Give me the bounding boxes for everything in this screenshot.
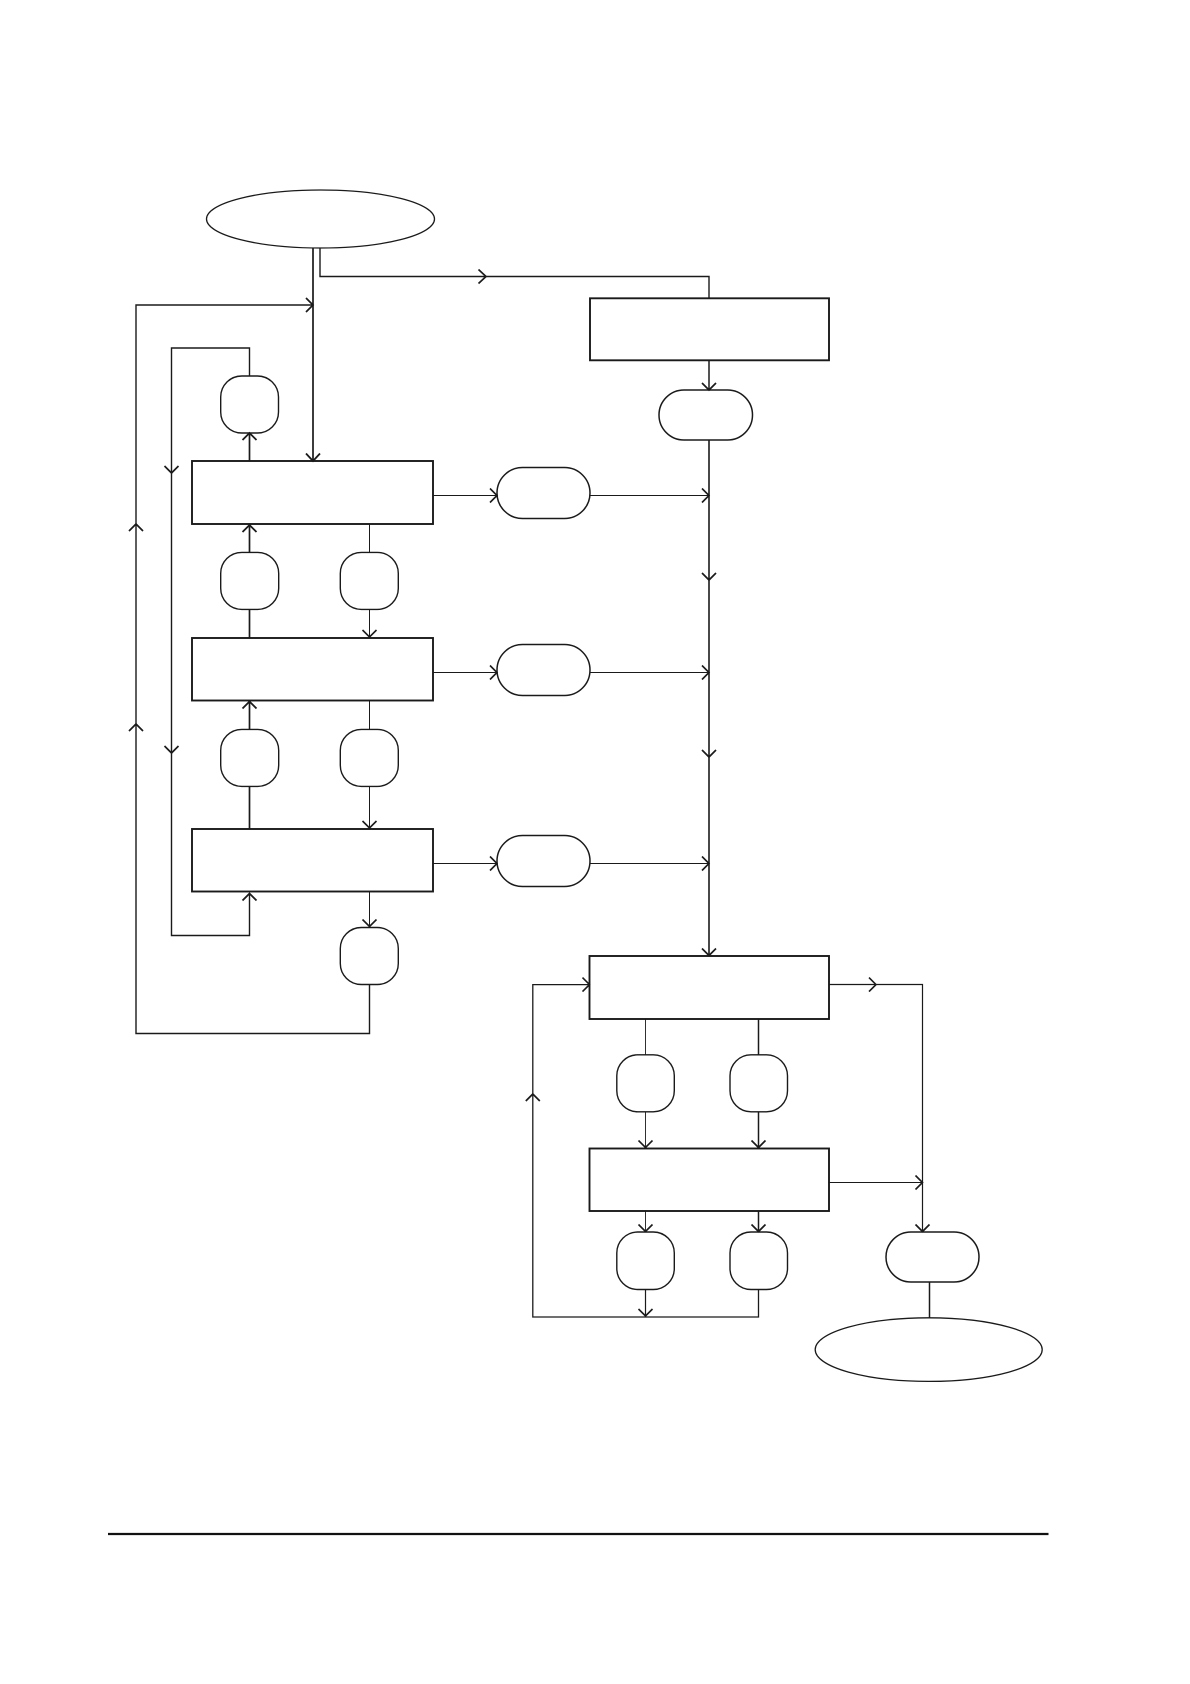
- arrowhead right merging into spine at y=670: [702, 666, 709, 680]
- arrowhead right into capsule C1: [490, 489, 497, 503]
- arrowhead up into box B2 bottom: [243, 702, 257, 709]
- arrowhead down into box B3 top: [363, 821, 377, 828]
- wire: box B5 bottom down to squircle S6R: [758, 1211, 760, 1231]
- arrowhead down merging into return rail: [639, 1309, 653, 1316]
- arrowhead up into box B3 bottom: [243, 894, 257, 901]
- process box B5: [590, 1149, 830, 1212]
- connector squircle S2R: [340, 552, 398, 609]
- wire: box B2 bottom down to squircle S3R top: [369, 701, 371, 730]
- connector squircle S4 (below box B3): [340, 928, 398, 985]
- chevron down on inner loop at y=753: [165, 746, 179, 753]
- wire: box B5 bottom down to squircle S6L: [645, 1211, 647, 1231]
- connector squircle S3L: [221, 729, 279, 786]
- arrowhead up into box B1 bottom: [243, 525, 257, 532]
- process box B0 (top right): [590, 298, 829, 360]
- connector squircle S3R: [340, 729, 398, 786]
- wire: box B1 top up to squircle S1: [249, 434, 251, 461]
- process box B2: [192, 638, 433, 701]
- chevron down on inner loop at y=473: [165, 466, 179, 473]
- chevron up on outer loop at y=524: [129, 524, 143, 531]
- chevron down on spine at y=757: [702, 750, 716, 757]
- arrowhead down into capsule C0: [702, 383, 716, 390]
- capsule C0: [659, 390, 753, 440]
- arrowhead right merging into spine at y=493: [702, 489, 709, 503]
- arrowhead right into capsule C3: [490, 857, 497, 871]
- chevron up on return rail at y=1094: [526, 1094, 540, 1101]
- wire spine: capsule C0 down to box B4 top: [708, 440, 710, 955]
- connector squircle S6L: [617, 1232, 675, 1290]
- wire: box B3 bottom down to squircle S4 top: [369, 892, 371, 927]
- chevron up on outer loop at y=724: [129, 724, 143, 731]
- wire: box B4 right, down to capsule C4: [829, 985, 923, 1231]
- connector squircle S2L: [221, 552, 279, 609]
- wire: squircle S2L bottom down to box B2 top: [249, 609, 251, 638]
- wire return rail: squircle S6R bottom, down, left, up, right into box B4 left: [533, 985, 759, 1317]
- capsule C3: [497, 836, 590, 887]
- wire: squircle S3L top up to box B2 bottom: [249, 702, 251, 729]
- chevron down on spine at y=580: [702, 573, 716, 580]
- terminator ellipse E2 (end): [815, 1318, 1042, 1382]
- process box B3: [192, 829, 433, 892]
- wire: box B0 bottom to capsule C0: [708, 360, 710, 389]
- wire: capsule C1 right to spine: [590, 495, 708, 497]
- connector squircle S6R: [730, 1232, 788, 1290]
- wire: capsule C4 bottom down to end ellipse E2: [929, 1282, 931, 1318]
- footer rule: [108, 1533, 1049, 1535]
- arrowhead down into box B4 top: [702, 949, 716, 956]
- capsule C4: [886, 1232, 979, 1282]
- arrowhead down into box B2 top: [363, 630, 377, 637]
- connector squircle S5R: [730, 1055, 788, 1112]
- arrowhead down into squircle S6L top: [639, 1225, 653, 1232]
- wire: squircle S3L bottom down to box B3 top: [249, 786, 251, 829]
- wire: box B5 right merging into capsule C4 wire: [829, 1182, 922, 1184]
- arrowhead down into box B1 top: [306, 454, 320, 462]
- arrowhead down into capsule C4 top: [916, 1225, 930, 1232]
- arrowhead right merging into spine at y=861: [702, 857, 709, 871]
- capsule C2: [497, 645, 590, 696]
- arrowhead up into squircle S1 bottom: [243, 433, 257, 440]
- wire: squircle S5R bottom down to box B5 top: [758, 1112, 760, 1147]
- process box B4: [590, 956, 830, 1019]
- arrowhead chevron right on wire B: [479, 270, 487, 284]
- arrowhead chevron right on box B4 output wire: [869, 978, 876, 992]
- arrowhead down into squircle S6R top: [752, 1225, 766, 1232]
- wire: squircle S2R bottom down to box B2 top: [369, 609, 371, 637]
- wire A: start ellipse down to box B1 top: [312, 248, 314, 461]
- wire B: start ellipse branch right to box B0 top: [320, 248, 709, 298]
- wire: box B1 bottom down to squircle S2R top: [369, 524, 371, 552]
- arrowhead right merging into wire A at y=305: [306, 298, 313, 312]
- wire: box B4 bottom down to squircle S5R: [758, 1019, 760, 1055]
- wire: box B4 bottom down to squircle S5L: [645, 1019, 647, 1055]
- arrowhead right merging at x=922.5: [916, 1176, 923, 1190]
- wire: squircle S5L bottom down to box B5 top: [645, 1112, 647, 1147]
- terminator ellipse E1 (start): [207, 190, 435, 248]
- wire: capsule C3 right to spine: [590, 863, 708, 865]
- arrowhead right into capsule C2: [490, 666, 497, 680]
- wire outer loop: squircle S4 bottom, down, left, up, right into wire A: [136, 305, 370, 1034]
- wire: squircle S6L bottom down into return rail: [645, 1290, 647, 1316]
- wire: capsule C2 right to spine: [590, 672, 708, 674]
- wire: box B2 right to capsule C2: [433, 672, 496, 674]
- arrowhead down into box B5 top (right): [752, 1141, 766, 1148]
- arrowhead right into box B4 left: [583, 978, 590, 992]
- wire: squircle S2L top up to box B1 bottom: [249, 526, 251, 552]
- wire: squircle S3R bottom down to box B3 top: [369, 786, 371, 828]
- connector squircle S5L: [617, 1055, 675, 1112]
- arrowhead down into box B5 top (left): [639, 1141, 653, 1148]
- process box B1: [192, 461, 433, 524]
- arrowhead down into squircle S4 top: [363, 920, 377, 927]
- capsule C1: [497, 468, 590, 519]
- wire: box B1 right to capsule C1: [433, 495, 496, 497]
- wire: box B3 right to capsule C3: [433, 863, 496, 865]
- wire inner loop: squircle S1 top, left, down, to box B3 bottom: [172, 348, 250, 936]
- connector squircle S1 (above box B1): [221, 376, 279, 433]
